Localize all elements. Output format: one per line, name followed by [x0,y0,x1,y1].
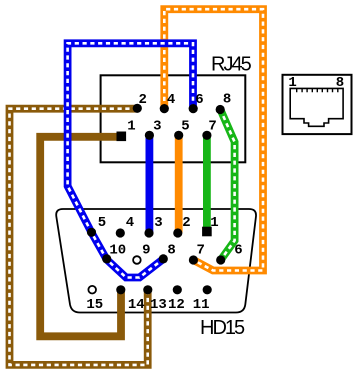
svg-text:4: 4 [126,215,134,231]
svg-text:12: 12 [168,297,185,313]
svg-text:13: 13 [150,297,167,313]
svg-text:15: 15 [86,297,103,313]
svg-text:2: 2 [182,215,190,231]
svg-text:RJ45: RJ45 [211,54,252,76]
svg-text:8: 8 [336,75,344,91]
svg-text:HD15: HD15 [200,317,245,339]
svg-text:5: 5 [181,119,189,135]
svg-text:6: 6 [195,92,203,108]
svg-text:3: 3 [153,119,161,135]
svg-text:4: 4 [167,92,175,108]
svg-text:6: 6 [234,243,242,259]
svg-text:5: 5 [98,215,106,231]
svg-text:14: 14 [128,297,145,313]
svg-text:8: 8 [167,243,175,259]
svg-text:8: 8 [223,92,231,108]
svg-text:7: 7 [196,243,204,259]
svg-text:10: 10 [109,243,126,259]
svg-text:1: 1 [127,119,135,135]
svg-text:1: 1 [288,75,296,91]
svg-text:11: 11 [193,297,210,313]
svg-text:9: 9 [142,243,150,259]
svg-text:7: 7 [208,119,216,135]
svg-text:2: 2 [138,92,146,108]
svg-text:3: 3 [154,215,162,231]
svg-text:1: 1 [210,215,218,231]
